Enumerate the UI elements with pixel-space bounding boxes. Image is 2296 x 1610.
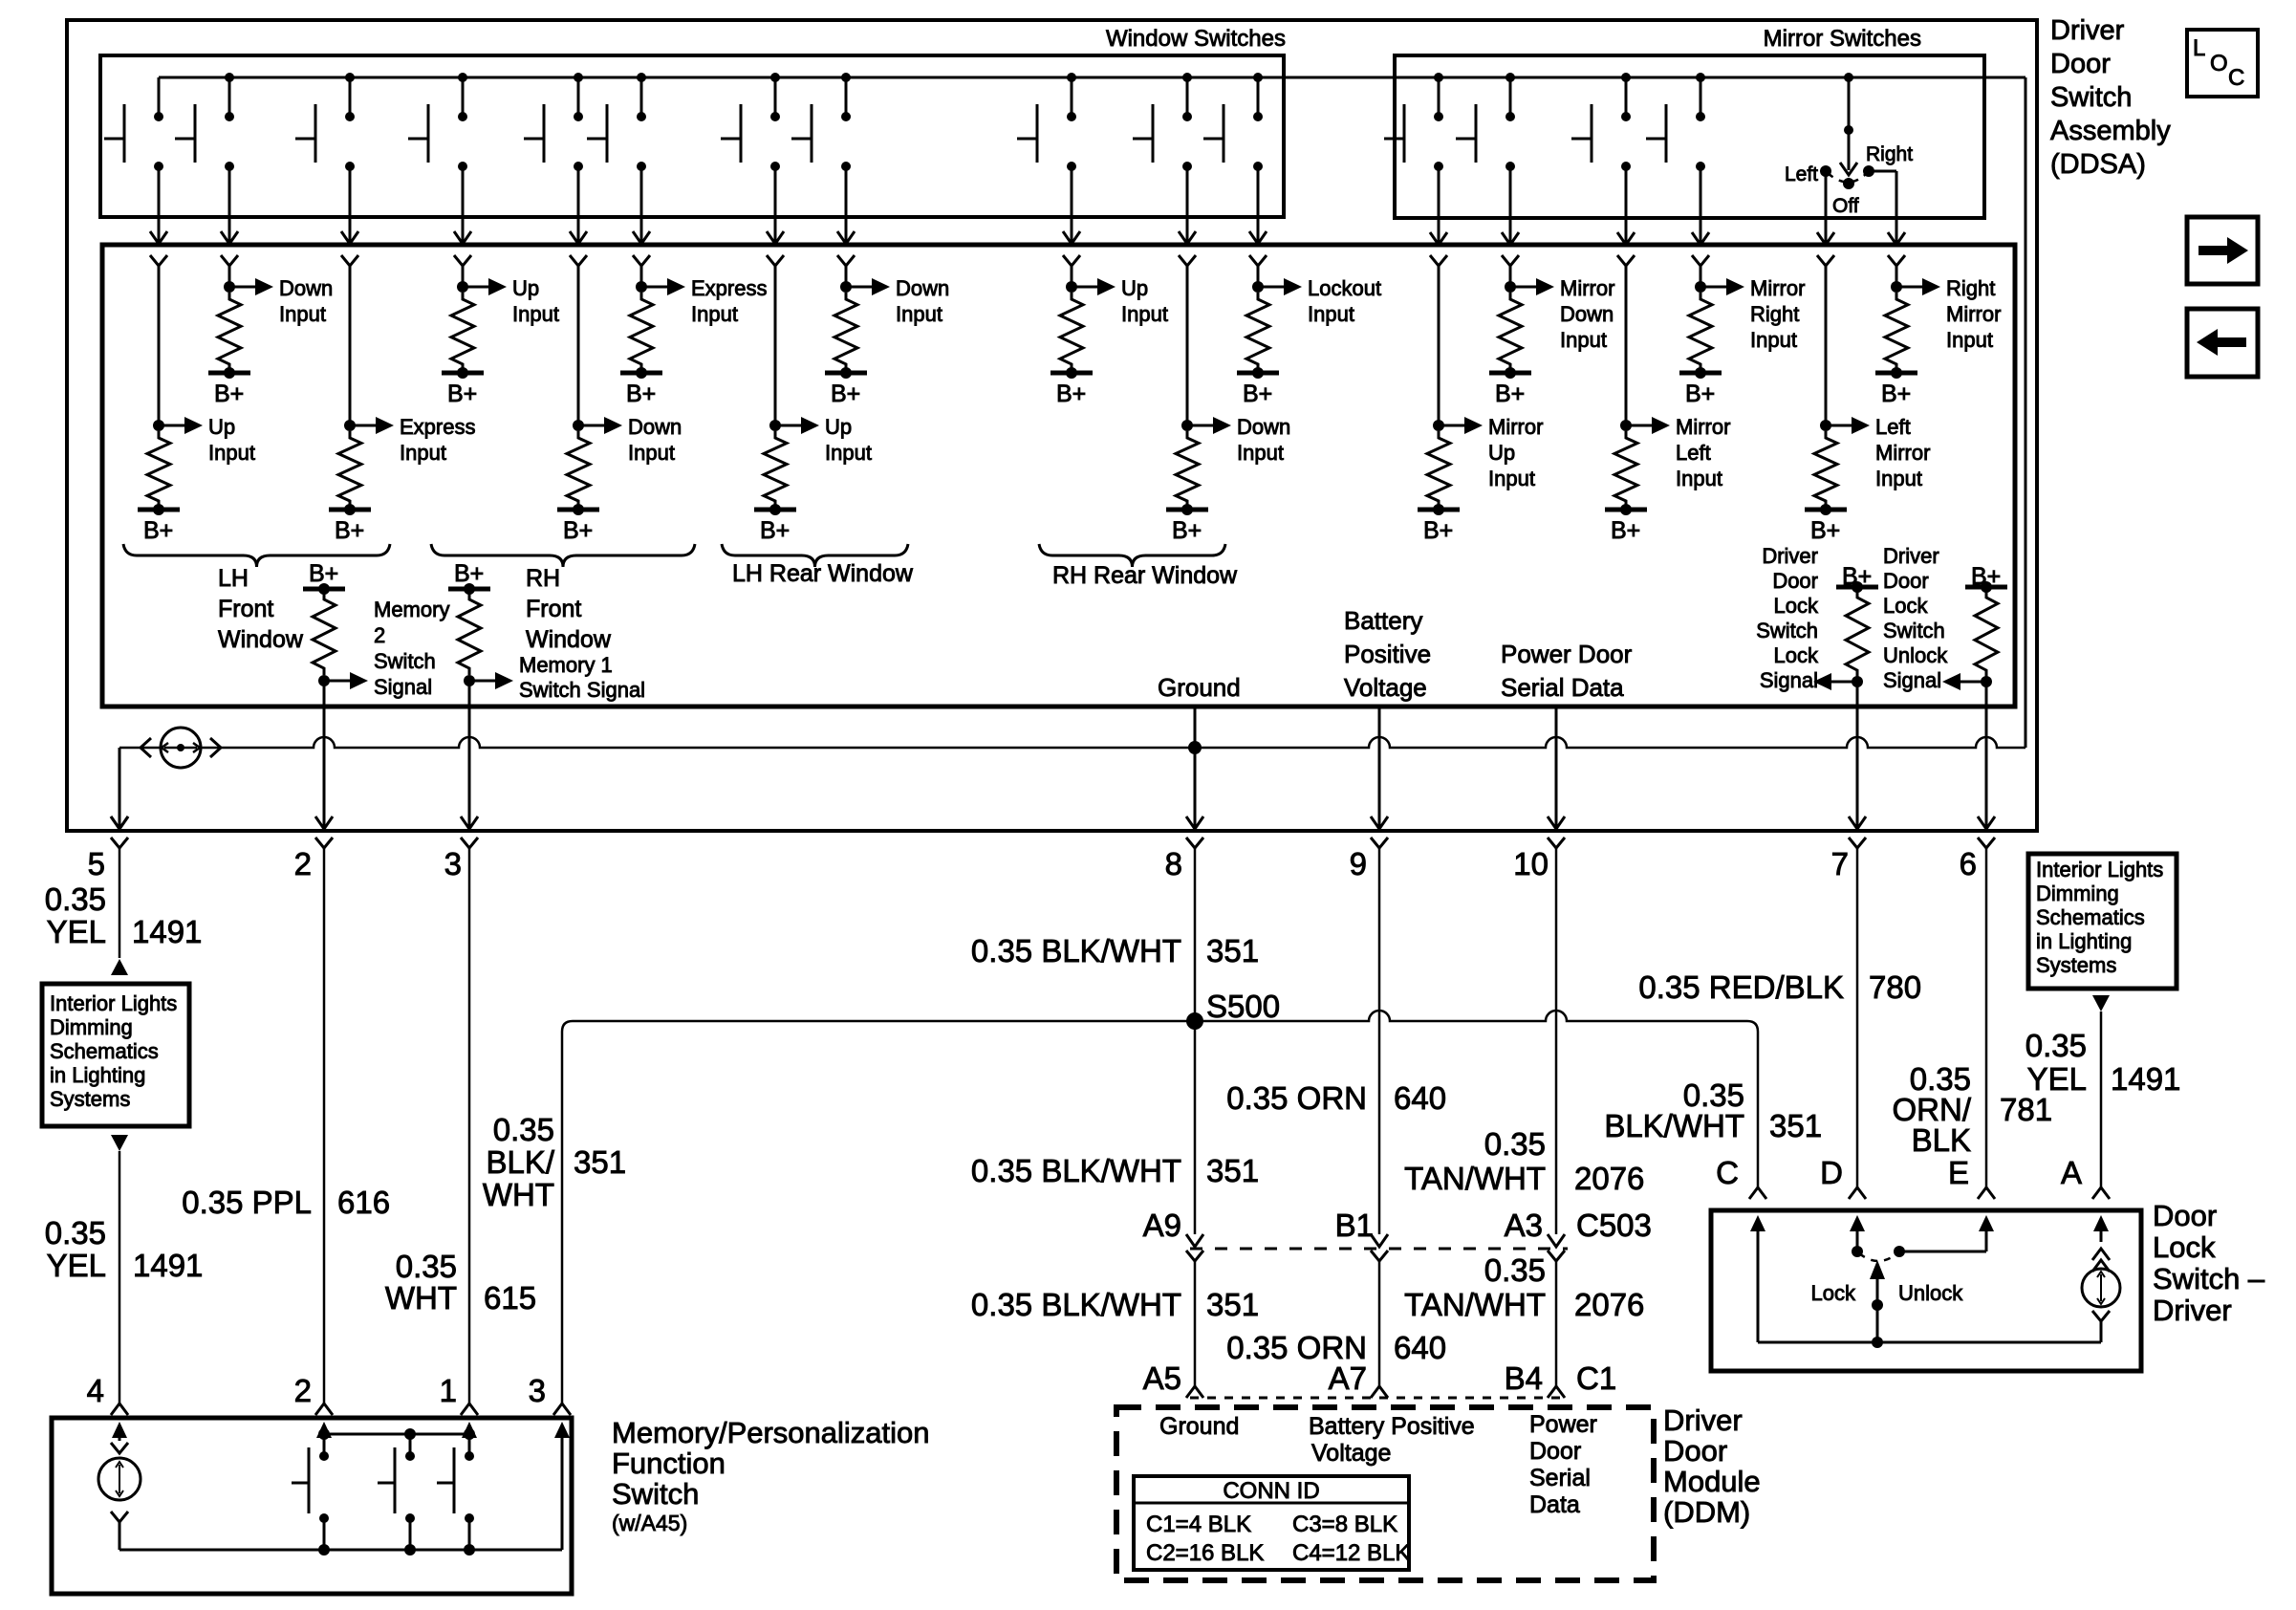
svg-text:B+: B+ <box>1243 381 1272 407</box>
svg-text:Input: Input <box>896 302 942 326</box>
svg-text:Front: Front <box>218 596 273 622</box>
svg-text:Window Switches: Window Switches <box>1106 26 1286 52</box>
mirror column 5: Left Mirror Input <box>1817 255 1834 266</box>
svg-text:Right: Right <box>1946 276 1995 300</box>
svg-text:Express: Express <box>400 415 475 439</box>
svg-text:Switch: Switch <box>2050 82 2132 113</box>
svg-text:2: 2 <box>294 846 312 881</box>
svg-text:640: 640 <box>1394 1080 1446 1116</box>
window switch 1 with drop into DDSA <box>158 77 161 117</box>
svg-text:Switch Signal: Switch Signal <box>519 678 645 702</box>
svg-text:Lock: Lock <box>1883 594 1928 618</box>
wire: C503 A3 to DDM B4 <box>1548 1251 1565 1261</box>
svg-text:Mirror: Mirror <box>1750 276 1805 300</box>
svg-text:Down: Down <box>1560 302 1614 326</box>
svg-text:B+: B+ <box>1611 517 1640 544</box>
box: Driver Door Module (DDM) dashed <box>1116 1407 1654 1580</box>
mirror column 6: Right Mirror Input <box>1888 255 1905 266</box>
box: Driver Door Switch Assembly (DDSA) outline <box>67 20 2037 831</box>
window switch 2 with drop into DDSA <box>225 73 234 82</box>
box: DDSA inner block <box>102 245 2015 707</box>
memory internal wire pin 4 with illumination lamp <box>119 1435 121 1441</box>
wire: C503 B1 to DDM A7 <box>1371 1251 1388 1261</box>
svg-text:Input: Input <box>512 302 559 326</box>
svg-text:Down: Down <box>1237 415 1290 439</box>
wire: DDSA pin 2 to memory pin 2 <box>323 889 326 1403</box>
svg-text:2076: 2076 <box>1574 1287 1644 1322</box>
svg-text:B+: B+ <box>143 517 173 544</box>
svg-text:0.35: 0.35 <box>1484 1252 1546 1288</box>
svg-text:Input: Input <box>1946 328 1993 352</box>
svg-text:0.35: 0.35 <box>396 1249 457 1284</box>
svg-text:4: 4 <box>87 1373 104 1408</box>
svg-text:Lock: Lock <box>2153 1230 2216 1264</box>
svg-text:C1=4 BLK: C1=4 BLK <box>1146 1512 1251 1537</box>
svg-text:B+: B+ <box>831 381 860 407</box>
mirror column 2: Mirror Down Input <box>1502 255 1519 266</box>
svg-text:S500: S500 <box>1206 989 1280 1024</box>
nav box: left arrow <box>2187 309 2258 377</box>
brace: LH Rear Window group <box>722 544 908 567</box>
memory push switch 1 <box>319 1451 329 1461</box>
svg-text:Serial Data: Serial Data <box>1501 673 1624 702</box>
svg-text:Mirror: Mirror <box>1676 415 1730 439</box>
wire: S500 down to C503 A9 <box>1194 1021 1197 1234</box>
door lock internal bottom wire <box>1758 1341 2101 1344</box>
svg-text:0.35: 0.35 <box>493 1112 554 1147</box>
column 5: Down Input (RH front) <box>570 255 587 266</box>
svg-text:WHT: WHT <box>483 1177 554 1212</box>
wire through DDSA bottom, pin 8 <box>1194 707 1197 828</box>
svg-text:Input: Input <box>825 441 872 465</box>
svg-text:0.35: 0.35 <box>1484 1126 1546 1162</box>
svg-text:Door: Door <box>1663 1434 1727 1468</box>
column 8: Down Input (LH rear) <box>837 255 855 266</box>
svg-text:E: E <box>1948 1155 1969 1190</box>
svg-text:Lock: Lock <box>1774 643 1819 667</box>
door lock selector arm <box>1859 1253 1897 1261</box>
wire: B+ feed right drop <box>2025 77 2027 748</box>
svg-text:Input: Input <box>208 441 255 465</box>
svg-text:Serial: Serial <box>1529 1465 1591 1491</box>
wire: DDSA pin 8 (ground) down to S500 <box>1194 889 1197 1021</box>
svg-text:Input: Input <box>1560 328 1607 352</box>
svg-text:Memory: Memory <box>374 598 449 621</box>
svg-text:Window: Window <box>218 626 304 653</box>
svg-text:TAN/WHT: TAN/WHT <box>1404 1161 1546 1196</box>
svg-text:780: 780 <box>1869 969 1921 1005</box>
column 6: Express Input (RH front) <box>633 255 650 266</box>
svg-text:Ground: Ground <box>1158 673 1241 702</box>
svg-text:Up: Up <box>1488 441 1515 465</box>
svg-text:Down: Down <box>896 276 949 300</box>
memory internal wire pin 3 <box>561 1435 564 1456</box>
svg-text:Switch: Switch <box>1883 619 1945 642</box>
svg-text:0.35 BLK/WHT: 0.35 BLK/WHT <box>971 1287 1181 1322</box>
wire: DDSA pin 7 to door lock switch D <box>1856 889 1859 1187</box>
inline connector symbol on B+ feed <box>161 728 201 768</box>
svg-text:Input: Input <box>691 302 738 326</box>
svg-text:B+: B+ <box>1495 381 1525 407</box>
svg-text:A5: A5 <box>1143 1360 1181 1396</box>
box: Mirror Switches <box>1395 55 1984 218</box>
svg-text:0.35 BLK/WHT: 0.35 BLK/WHT <box>971 933 1181 968</box>
svg-text:Mirror: Mirror <box>1488 415 1543 439</box>
svg-text:Ground: Ground <box>1159 1413 1239 1440</box>
window switch 3 with drop into DDSA <box>345 73 355 82</box>
svg-text:B1: B1 <box>1335 1207 1374 1243</box>
svg-text:TAN/WHT: TAN/WHT <box>1404 1287 1546 1322</box>
wire: interior lights box to memory pin 4 <box>111 1135 128 1151</box>
svg-text:Unlock: Unlock <box>1898 1281 1963 1305</box>
mirror column 1: Mirror Up Input <box>1430 255 1447 266</box>
svg-text:Lockout: Lockout <box>1308 276 1381 300</box>
svg-text:C2=16 BLK: C2=16 BLK <box>1146 1540 1264 1566</box>
svg-text:0.35 PPL: 0.35 PPL <box>182 1185 312 1220</box>
box: Window Switches <box>100 55 1284 217</box>
svg-text:Up: Up <box>1121 276 1148 300</box>
svg-text:0.35: 0.35 <box>45 881 106 917</box>
svg-text:RH Rear Window: RH Rear Window <box>1052 562 1238 589</box>
wire: pin 5 drop from B+ feed <box>119 748 121 828</box>
svg-text:Mirror: Mirror <box>1875 441 1930 465</box>
wire: B+ bus across switch boxes <box>159 76 2025 79</box>
wire through DDSA bottom, pin 6 <box>1985 682 1988 828</box>
svg-text:Up: Up <box>208 415 235 439</box>
svg-text:Data: Data <box>1529 1491 1580 1518</box>
svg-text:in Lighting: in Lighting <box>50 1063 145 1087</box>
svg-text:Lock: Lock <box>1811 1281 1856 1305</box>
memory push switch 2 <box>405 1451 415 1461</box>
window switch 11 with drop into DDSA <box>1253 73 1263 82</box>
svg-text:0.35: 0.35 <box>2025 1028 2087 1063</box>
svg-text:B+: B+ <box>447 381 477 407</box>
svg-text:Interior Lights: Interior Lights <box>2036 858 2163 881</box>
svg-text:L: L <box>2193 35 2205 61</box>
svg-text:A9: A9 <box>1143 1207 1181 1243</box>
svg-text:B+: B+ <box>214 381 244 407</box>
svg-text:Left: Left <box>1676 441 1711 465</box>
svg-text:0.35 BLK/WHT: 0.35 BLK/WHT <box>971 1153 1181 1188</box>
svg-text:O: O <box>2210 51 2228 76</box>
svg-text:Battery: Battery <box>1344 606 1422 635</box>
wire through DDSA bottom, pin 10 <box>1555 707 1558 828</box>
wire through DDSA bottom, pin 3 <box>468 681 471 828</box>
svg-text:Left: Left <box>1875 415 1911 439</box>
svg-text:Input: Input <box>1750 328 1797 352</box>
svg-text:WHT: WHT <box>385 1280 457 1316</box>
svg-text:B+: B+ <box>563 517 593 544</box>
svg-text:B+: B+ <box>626 381 656 407</box>
svg-text:351: 351 <box>1206 1287 1259 1322</box>
svg-text:Up: Up <box>825 415 852 439</box>
svg-text:Signal: Signal <box>1883 668 1941 692</box>
connector C503 dashed line <box>1190 1248 1568 1251</box>
svg-text:BLK/WHT: BLK/WHT <box>1604 1108 1744 1143</box>
svg-text:Input: Input <box>1121 302 1168 326</box>
svg-text:D: D <box>1820 1155 1843 1190</box>
wire: pin 5 to interior lights box <box>119 889 121 958</box>
svg-text:Input: Input <box>279 302 326 326</box>
mirror column 4: Mirror Right Input <box>1692 255 1709 266</box>
svg-text:Input: Input <box>628 441 675 465</box>
svg-text:C4=12 BLK: C4=12 BLK <box>1292 1540 1410 1566</box>
svg-text:CONN ID: CONN ID <box>1223 1478 1319 1504</box>
box: Interior Lights Dimming Schematics (right) <box>2028 854 2177 989</box>
wire: DDSA pin 6 to door lock switch E <box>1985 889 1988 1187</box>
svg-text:616: 616 <box>337 1185 390 1220</box>
door lock internal wire C <box>1757 1229 1760 1255</box>
mirror switch 1 with drop into DDSA <box>1434 73 1443 82</box>
svg-text:YEL: YEL <box>2027 1061 2087 1097</box>
svg-text:A3: A3 <box>1505 1207 1543 1243</box>
svg-text:Module: Module <box>1663 1465 1761 1498</box>
wire through DDSA bottom, pin 5 <box>111 816 128 829</box>
wire through DDSA bottom, pin 9 <box>1378 707 1381 828</box>
box: Memory/Personalization Function Switch <box>52 1418 572 1594</box>
column 10: Down Input (RH rear) <box>1179 255 1196 266</box>
svg-text:351: 351 <box>1206 1153 1259 1188</box>
svg-text:B+: B+ <box>1810 517 1840 544</box>
svg-text:Driver: Driver <box>2050 15 2125 46</box>
memory internal wire pin 1 <box>468 1435 471 1456</box>
svg-text:C1: C1 <box>1576 1360 1616 1396</box>
svg-text:2: 2 <box>374 623 385 647</box>
svg-text:3: 3 <box>444 846 462 881</box>
LOC logo box <box>2187 30 2258 97</box>
svg-text:Front: Front <box>526 596 581 622</box>
mirror select switch Left/Off/Right <box>1844 73 1853 82</box>
svg-text:C: C <box>2228 65 2244 91</box>
svg-text:Systems: Systems <box>2036 953 2116 977</box>
svg-text:0.35 ORN: 0.35 ORN <box>1226 1080 1367 1116</box>
svg-text:Door: Door <box>1883 569 1929 593</box>
svg-text:(w/A45): (w/A45) <box>612 1511 687 1535</box>
window switch 10 with drop into DDSA <box>1182 73 1192 82</box>
svg-text:B+: B+ <box>1172 517 1202 544</box>
wire: DDSA pin 9 (battery) to C503 B1 <box>1378 889 1381 1234</box>
memory internal wire pin 2 <box>323 1435 326 1456</box>
svg-text:Memory 1: Memory 1 <box>519 653 613 677</box>
svg-text:Input: Input <box>1676 467 1722 490</box>
svg-text:Interior Lights: Interior Lights <box>50 991 177 1015</box>
svg-text:Schematics: Schematics <box>50 1039 159 1063</box>
svg-text:LH: LH <box>218 565 249 592</box>
svg-text:1491: 1491 <box>132 914 202 949</box>
svg-text:YEL: YEL <box>47 1248 106 1283</box>
svg-text:Up: Up <box>512 276 539 300</box>
svg-text:Input: Input <box>1308 302 1354 326</box>
svg-text:3: 3 <box>529 1373 546 1408</box>
svg-text:640: 640 <box>1394 1330 1446 1365</box>
svg-text:5: 5 <box>88 846 105 881</box>
brace: LH Front Window group <box>123 544 390 567</box>
svg-text:B+: B+ <box>335 517 364 544</box>
column 11: Lockout Input <box>1249 255 1267 266</box>
svg-text:Door: Door <box>2050 49 2111 79</box>
column 4: Up Input (RH front) <box>454 255 471 266</box>
svg-text:Switch: Switch <box>1756 619 1818 642</box>
wire: S500 branch to door lock switch C <box>1195 1011 1758 1187</box>
wire: DDSA pin 3 to memory pin 1 <box>468 889 471 1403</box>
svg-text:Assembly: Assembly <box>2050 116 2171 146</box>
svg-text:Battery Positive: Battery Positive <box>1309 1413 1475 1440</box>
wire: B+ feed bottom run <box>119 737 2025 748</box>
svg-text:9: 9 <box>1350 846 1367 881</box>
svg-text:Driver: Driver <box>1883 544 1939 568</box>
svg-text:Signal: Signal <box>374 675 432 699</box>
svg-text:B+: B+ <box>454 560 484 587</box>
CONN ID table <box>1134 1476 1409 1570</box>
splice S500 <box>1186 1012 1203 1030</box>
wire through DDSA bottom, pin 7 <box>1856 682 1859 828</box>
svg-text:1491: 1491 <box>2111 1061 2180 1097</box>
svg-text:Input: Input <box>1488 467 1535 490</box>
svg-text:B+: B+ <box>1685 381 1715 407</box>
svg-text:C503: C503 <box>1576 1207 1652 1243</box>
svg-text:B+: B+ <box>1056 381 1086 407</box>
svg-text:Input: Input <box>1875 467 1922 490</box>
mirror column 3: Mirror Left Input <box>1617 255 1635 266</box>
svg-text:RH: RH <box>526 565 560 592</box>
column 7: Up Input (LH rear) <box>767 255 784 266</box>
svg-text:Express: Express <box>691 276 767 300</box>
brace: RH Front Window group <box>431 544 695 567</box>
svg-text:(DDM): (DDM) <box>1663 1495 1750 1529</box>
svg-text:Down: Down <box>628 415 682 439</box>
svg-text:2076: 2076 <box>1574 1161 1644 1196</box>
window switch 9 with drop into DDSA <box>1067 73 1076 82</box>
svg-text:(DDSA): (DDSA) <box>2050 149 2146 180</box>
svg-text:A7: A7 <box>1329 1360 1367 1396</box>
svg-text:615: 615 <box>484 1280 536 1316</box>
svg-text:7: 7 <box>1831 846 1849 881</box>
svg-text:Mirror: Mirror <box>1560 276 1614 300</box>
svg-text:in Lighting: in Lighting <box>2036 929 2132 953</box>
svg-text:YEL: YEL <box>47 914 106 949</box>
wire: interior lights (right) to door lock switch A <box>2092 995 2110 1012</box>
svg-text:Voltage: Voltage <box>1344 673 1427 702</box>
svg-text:Switch –: Switch – <box>2153 1262 2265 1295</box>
window switch 8 with drop into DDSA <box>841 73 851 82</box>
svg-text:Switch: Switch <box>374 649 436 673</box>
column 9: Up Input (RH rear) <box>1063 255 1080 266</box>
svg-text:781: 781 <box>2000 1092 2052 1127</box>
svg-text:Mirror Switches: Mirror Switches <box>1764 26 1921 52</box>
svg-text:Off: Off <box>1832 195 1859 217</box>
svg-text:10: 10 <box>1513 846 1549 881</box>
svg-text:Dimming: Dimming <box>50 1015 133 1039</box>
svg-text:Input: Input <box>1237 441 1284 465</box>
column 1: Up Input (LH front) <box>150 255 167 266</box>
connector DDM dashed line <box>1190 1397 1564 1400</box>
memory push switch 3 <box>465 1451 474 1461</box>
svg-text:B4: B4 <box>1505 1360 1543 1396</box>
svg-text:351: 351 <box>1769 1108 1822 1143</box>
svg-text:Power Door: Power Door <box>1501 640 1633 668</box>
mirror switch 2 with drop into DDSA <box>1505 73 1515 82</box>
svg-text:Systems: Systems <box>50 1087 130 1111</box>
mirror switch 4 with drop into DDSA <box>1696 73 1705 82</box>
svg-text:Positive: Positive <box>1344 640 1431 668</box>
mirror switch 3 with drop into DDSA <box>1621 73 1631 82</box>
svg-text:8: 8 <box>1165 846 1182 881</box>
svg-text:A: A <box>2061 1155 2082 1190</box>
svg-text:Switch: Switch <box>612 1477 699 1511</box>
wire through DDSA bottom, pin 2 <box>323 681 326 828</box>
svg-text:Dimming: Dimming <box>2036 881 2119 905</box>
svg-text:Driver: Driver <box>1663 1403 1743 1437</box>
window switch 6 with drop into DDSA <box>637 73 646 82</box>
svg-text:C: C <box>1716 1155 1739 1190</box>
svg-text:Schematics: Schematics <box>2036 905 2145 929</box>
svg-text:B+: B+ <box>760 517 790 544</box>
door lock internal wire E to Unlock contact <box>1985 1229 1988 1250</box>
brace: RH Rear Window group <box>1039 544 1225 567</box>
svg-text:B+: B+ <box>1881 381 1911 407</box>
svg-text:Driver: Driver <box>1762 544 1818 568</box>
svg-text:351: 351 <box>574 1144 626 1180</box>
svg-text:351: 351 <box>1206 933 1259 968</box>
svg-text:0.35 RED/BLK: 0.35 RED/BLK <box>1638 969 1844 1005</box>
column 3: Express Input (LH front) <box>341 255 358 266</box>
svg-text:Lock: Lock <box>1774 594 1819 618</box>
wire: S500 branch to memory pin 3 <box>562 1021 1195 1403</box>
svg-text:C3=8 BLK: C3=8 BLK <box>1292 1512 1397 1537</box>
svg-text:Right: Right <box>1750 302 1799 326</box>
svg-text:6: 6 <box>1960 846 1977 881</box>
svg-text:LH Rear Window: LH Rear Window <box>732 560 914 587</box>
svg-text:Door: Door <box>1772 569 1818 593</box>
svg-text:Unlock: Unlock <box>1883 643 1948 667</box>
door lock internal wire D to Lock contact <box>1856 1229 1859 1250</box>
memory internal bottom bus <box>119 1549 562 1552</box>
svg-text:Voltage: Voltage <box>1311 1440 1391 1467</box>
nav box: right arrow <box>2187 217 2258 284</box>
window switch 5 with drop into DDSA <box>574 73 583 82</box>
door lock internal wire A with illumination lamp <box>2100 1229 2103 1242</box>
window switch 4 with drop into DDSA <box>458 73 467 82</box>
junction: B+ feed / ground wire <box>1188 741 1202 754</box>
svg-text:BLK/: BLK/ <box>486 1144 554 1180</box>
memory internal top bus <box>324 1433 469 1436</box>
wire: DDSA pin 10 (serial data) to C503 A3 <box>1555 889 1558 1234</box>
svg-text:Door: Door <box>1529 1438 1581 1465</box>
svg-text:Left: Left <box>1785 163 1818 185</box>
window switch 7 with drop into DDSA <box>770 73 780 82</box>
svg-text:Mirror: Mirror <box>1946 302 2001 326</box>
svg-text:Down: Down <box>279 276 333 300</box>
svg-text:1491: 1491 <box>133 1248 203 1283</box>
svg-text:0.35: 0.35 <box>45 1215 106 1251</box>
svg-text:Door: Door <box>2153 1199 2217 1232</box>
wire: C503 A9 to DDM A5 <box>1186 1251 1203 1261</box>
box: Door Lock Switch - Driver <box>1711 1210 2141 1371</box>
svg-text:B+: B+ <box>1423 517 1453 544</box>
svg-text:Power: Power <box>1529 1411 1597 1438</box>
svg-text:Right: Right <box>1866 143 1913 165</box>
svg-text:BLK: BLK <box>1912 1122 1971 1158</box>
svg-text:Window: Window <box>526 626 612 653</box>
svg-text:Memory/Personalization: Memory/Personalization <box>612 1416 930 1449</box>
svg-text:Driver: Driver <box>2153 1294 2232 1327</box>
svg-text:1: 1 <box>440 1373 457 1408</box>
svg-text:B+: B+ <box>309 560 338 587</box>
svg-text:Signal: Signal <box>1760 668 1818 692</box>
svg-text:2: 2 <box>294 1373 312 1408</box>
box: Interior Lights Dimming Schematics (left) <box>42 984 189 1126</box>
svg-text:Function: Function <box>612 1447 726 1480</box>
